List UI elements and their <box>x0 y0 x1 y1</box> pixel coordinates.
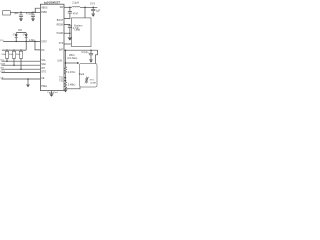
node TS2 <box>65 80 67 82</box>
node TS1 <box>65 77 67 79</box>
LED D1 <box>13 33 18 41</box>
svg-text:STAT: STAT <box>41 40 47 43</box>
node pack return <box>65 88 66 89</box>
svg-text:1µF: 1µF <box>96 9 100 12</box>
ground C5 <box>91 14 95 17</box>
ground U1 pad <box>49 94 53 97</box>
wire TS rail <box>65 50 67 66</box>
svg-text:3.48kΩ: 3.48kΩ <box>68 83 76 86</box>
svg-text:NTC: NTC <box>90 80 95 82</box>
capacitor C4 4.7uF REGN <box>64 24 72 33</box>
svg-text:SYS: SYS <box>90 2 95 5</box>
svg-text:4.7µF: 4.7µF <box>26 12 33 15</box>
svg-text:System: System <box>74 25 82 28</box>
svg-text:SYS: SYS <box>59 43 64 45</box>
resistor R2 10k <box>12 51 15 58</box>
node BAT-TS <box>65 49 67 51</box>
wire CE <box>1 78 40 80</box>
svg-text:+: + <box>87 52 89 55</box>
wire R3 drop <box>20 58 22 69</box>
wire INT <box>1 68 40 70</box>
node BAT-cap <box>90 49 92 51</box>
node D1 <box>15 41 17 43</box>
op-amp U1 charger IC body <box>40 4 64 90</box>
svg-text:1.3kΩ: 1.3kΩ <box>29 39 36 42</box>
wire R2 drop <box>13 58 15 65</box>
wire SYS drop to load <box>84 7 86 18</box>
svg-text:47nF: 47nF <box>73 13 79 16</box>
node CE-gnd <box>27 78 29 80</box>
connector J1 (input) <box>3 11 11 15</box>
svg-text:REGN: REGN <box>57 24 64 26</box>
svg-text:280Ω: 280Ω <box>69 54 75 57</box>
ground C2 <box>31 19 35 22</box>
ground PGND <box>68 33 72 40</box>
node R2b <box>13 64 15 66</box>
node TS-arrow <box>65 62 67 64</box>
svg-text:4.7µF: 4.7µF <box>81 51 88 54</box>
resistor R3 10k <box>19 51 22 58</box>
svg-text:(1% Max): (1% Max) <box>67 58 77 60</box>
ground C1 <box>19 19 23 22</box>
capacitor C2 4.7uF <box>31 12 35 18</box>
wire CE ground drop <box>27 79 29 85</box>
svg-text:PSEL: PSEL <box>41 86 48 88</box>
LED D2 <box>23 33 28 41</box>
node R3b <box>20 68 22 70</box>
svg-text:103AT: 103AT <box>90 82 97 85</box>
load box system <box>72 18 92 47</box>
node SW <box>69 7 71 9</box>
svg-text:2.2µH: 2.2µH <box>72 2 79 5</box>
svg-text:2.27kΩ: 2.27kΩ <box>68 71 76 74</box>
wire pullup bus <box>2 41 26 50</box>
svg-text:SW: SW <box>60 7 65 9</box>
svg-text:BAT: BAT <box>59 49 64 52</box>
battery pack box <box>80 64 98 88</box>
wire OTG <box>1 72 40 74</box>
svg-text:VBUS: VBUS <box>41 8 48 10</box>
svg-text:bq24259RGET: bq24259RGET <box>44 1 61 4</box>
svg-text:CE: CE <box>41 78 45 80</box>
svg-text:PGND: PGND <box>57 33 64 35</box>
wire VBUS branch up <box>35 8 40 12</box>
inductor L1 2.2uH <box>72 5 80 8</box>
svg-text:OTG: OTG <box>41 71 46 73</box>
node D2 <box>25 41 27 43</box>
capacitor C5 SYS <box>91 7 95 14</box>
node R1b <box>6 60 8 62</box>
wire PGND <box>64 32 70 34</box>
wire BAT rail <box>64 50 98 63</box>
thermistor RT 103AT <box>85 77 89 84</box>
resistor RT1 <box>64 67 66 78</box>
svg-text:PMID: PMID <box>41 12 47 14</box>
resistor R1 10k <box>5 51 8 58</box>
svg-text:PG: PG <box>41 50 45 52</box>
wire EN elbow <box>35 41 40 50</box>
svg-text:Load: Load <box>75 29 81 32</box>
node C5 <box>92 7 94 9</box>
wire VBUS input <box>10 11 40 13</box>
ground TS <box>64 90 68 93</box>
node VBUS-branch <box>34 12 36 14</box>
svg-text:INT: INT <box>41 68 45 70</box>
wire thermal pad ground <box>51 91 53 94</box>
node C2 <box>32 12 34 14</box>
svg-text:SDA: SDA <box>41 63 46 66</box>
capacitor C3 47nF bootstrap <box>64 7 72 18</box>
wire TS arrow to pack <box>66 62 78 64</box>
ground C6 <box>89 60 93 63</box>
svg-text:10kΩ: 10kΩ <box>1 53 6 56</box>
node EN <box>34 41 36 43</box>
svg-text:VIO: VIO <box>18 29 22 32</box>
svg-text:TS1: TS1 <box>59 78 64 80</box>
node R1 <box>6 49 8 51</box>
wire SDA <box>1 64 40 66</box>
node C1 <box>20 12 22 14</box>
wire TS1 stub <box>64 77 66 79</box>
wire SYS rail <box>80 6 97 8</box>
svg-text:TS2: TS2 <box>59 81 64 83</box>
wire R1 drop <box>6 58 8 61</box>
svg-text:ILIM: ILIM <box>58 60 63 62</box>
svg-text:1µF: 1µF <box>14 12 19 15</box>
svg-text:BOOT: BOOT <box>57 20 64 22</box>
node PGND <box>69 32 71 34</box>
svg-text:10kΩ: 10kΩ <box>9 53 14 56</box>
node R3 <box>20 49 22 51</box>
wire SYS pin stub <box>64 43 72 45</box>
svg-text:Pack: Pack <box>79 73 85 76</box>
svg-text:SCL: SCL <box>41 60 46 62</box>
wire SW out <box>64 6 72 8</box>
ground CE <box>26 85 29 88</box>
wire TS2 stub <box>64 80 66 82</box>
node R2 <box>13 49 15 51</box>
node SYS-drop <box>84 7 86 9</box>
wire SCL <box>1 60 40 62</box>
capacitor C1 1uF <box>19 12 23 18</box>
svg-text:10kΩ: 10kΩ <box>16 53 21 56</box>
capacitor C6 4.7uF BAT <box>87 50 93 60</box>
resistor RT2 <box>64 78 66 90</box>
wire STAT rail <box>3 40 40 42</box>
wire VIO rail <box>16 33 26 35</box>
wire pack return <box>66 87 81 89</box>
